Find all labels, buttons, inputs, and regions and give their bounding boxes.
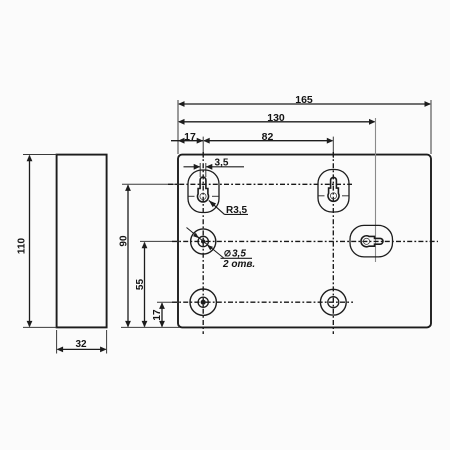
keyhole top-left outer recess: [188, 170, 219, 213]
dimension 110 line: [29, 156, 31, 327]
centerline row3: [157, 301, 178, 303]
bottom-right hole inner circle: [328, 297, 339, 308]
dimension 90 line: [127, 185, 129, 326]
bottom-left hole outer circle: [190, 289, 216, 315]
centerline col1: [202, 137, 204, 158]
bottom-left hole inner circle: [198, 297, 208, 307]
centerline col2: [332, 137, 334, 158]
extension lines for 32: [56, 330, 58, 354]
side view rectangle: [57, 155, 107, 328]
keyhole middle-right outer recess: [350, 225, 393, 257]
dimension 82 line: [204, 140, 332, 142]
bottom-right hole outer circle: [320, 289, 346, 315]
svg-text:32: 32: [75, 339, 87, 350]
leader R3,5: [209, 200, 225, 214]
svg-text:90: 90: [119, 235, 130, 247]
keyhole middle-right hole: [361, 236, 383, 247]
dimension 32 line: [58, 348, 106, 350]
extension line 130 down to keyhole (grey): [375, 118, 377, 262]
keyhole top-right hole: [328, 177, 339, 201]
dimension 55 line: [144, 243, 146, 327]
dimension 17 top line: [171, 140, 203, 142]
svg-text:55: 55: [135, 279, 146, 291]
keyhole top-right outer recess: [318, 170, 349, 213]
extension lines for 3,5 slot: [199, 163, 201, 177]
centerline row1: [122, 183, 178, 185]
svg-text:130: 130: [267, 112, 285, 124]
extension line bottom-left of side view: [23, 326, 57, 328]
svg-text:17: 17: [184, 131, 196, 143]
keyhole top-left hole: [198, 177, 209, 202]
svg-text:165: 165: [295, 94, 313, 106]
keyhole top-right center ticks: [319, 195, 325, 197]
extension line top-left of side view: [23, 154, 57, 156]
bottom-left hole dark center: [201, 300, 206, 305]
extension line 165 left: [177, 100, 179, 154]
centerline row2: [140, 240, 178, 242]
dimension 130 line: [179, 121, 375, 123]
svg-text:R3,5: R3,5: [226, 205, 248, 216]
svg-text:17: 17: [152, 309, 163, 321]
dimension 3,5 slot width: [184, 166, 201, 168]
middle-left hole dark center: [201, 239, 205, 243]
extension line bottom edge to left of plate: [121, 326, 180, 328]
svg-text:3,5: 3,5: [232, 249, 246, 260]
svg-text:3,5: 3,5: [215, 157, 229, 168]
keyhole top-left center ticks: [189, 195, 195, 197]
label dia 3,5: [225, 251, 230, 256]
dimension 17 left line: [161, 303, 163, 326]
svg-text:82: 82: [262, 131, 274, 143]
middle-left hole inner circle: [198, 236, 208, 246]
extension line 165 right: [430, 100, 432, 154]
leader dia 3,5: [187, 228, 225, 259]
dimension 165 line: [179, 103, 430, 105]
svg-text:2 отв.: 2 отв.: [222, 259, 255, 270]
front view plate outline: [178, 155, 431, 328]
middle-left hole outer circle: [191, 229, 216, 254]
svg-text:110: 110: [17, 237, 28, 254]
